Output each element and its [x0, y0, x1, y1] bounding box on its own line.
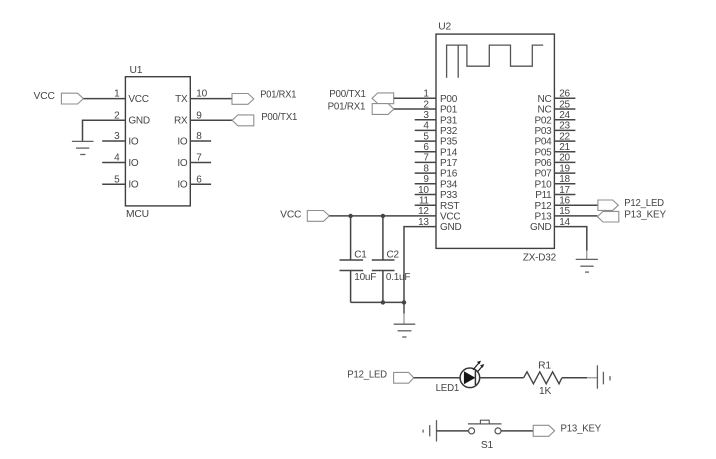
svg-text:5: 5 [423, 131, 429, 142]
svg-text:6: 6 [423, 142, 429, 153]
U2 pin 8 P16 [415, 163, 458, 179]
svg-text:P13: P13 [534, 212, 552, 223]
resistor R1 [524, 361, 562, 397]
svg-text:P11: P11 [535, 190, 552, 201]
svg-text:R1: R1 [538, 361, 551, 372]
svg-text:IO: IO [177, 180, 188, 191]
svg-text:VCC: VCC [280, 209, 302, 220]
IC U2 body [436, 22, 556, 264]
svg-text:TX: TX [175, 94, 188, 105]
svg-text:6: 6 [196, 174, 202, 185]
svg-text:P02: P02 [534, 115, 552, 126]
svg-text:P00/TX1: P00/TX1 [329, 89, 366, 100]
port VCC (decoupling rail) [280, 209, 329, 221]
U1 pin 5 IO [102, 174, 139, 190]
U2 pin 15 P13 [534, 206, 570, 222]
wire U2 pin16 to P12_LED port [554, 204, 598, 206]
svg-text:24: 24 [559, 110, 570, 121]
svg-text:10: 10 [418, 185, 429, 196]
svg-text:P35: P35 [440, 137, 458, 148]
svg-text:5: 5 [114, 174, 120, 185]
svg-text:P17: P17 [440, 158, 458, 169]
wire U1 pin2 GND [83, 120, 126, 141]
svg-text:3: 3 [423, 110, 429, 121]
svg-text:U1: U1 [130, 65, 143, 76]
port P13_KEY (key circuit) [533, 423, 601, 436]
wire ground rail [351, 301, 404, 303]
U2 pin 1 P00 [423, 89, 457, 105]
svg-text:P04: P04 [534, 137, 552, 148]
U2 pin 5 P35 [415, 131, 458, 147]
svg-text:P12_LED: P12_LED [624, 198, 664, 209]
svg-text:19: 19 [559, 163, 570, 174]
svg-text:GND: GND [440, 222, 462, 233]
U2 pin 6 P14 [415, 142, 458, 158]
U2 pin 25 NC [538, 99, 576, 115]
svg-text:IO: IO [128, 158, 139, 169]
antenna squiggle (U2) [447, 45, 544, 78]
U2 pin 24 P02 [534, 110, 575, 126]
svg-text:P00/TX1: P00/TX1 [261, 112, 297, 123]
switch S1 [468, 420, 502, 451]
wire P01 port to U2 pin2 [394, 108, 436, 110]
wire U2 pin13 GND down [404, 227, 436, 303]
U2 pin 18 P10 [534, 174, 575, 190]
svg-text:S1: S1 [481, 440, 494, 451]
svg-text:VCC: VCC [440, 212, 460, 223]
svg-text:8: 8 [423, 163, 429, 174]
svg-text:GND: GND [128, 116, 150, 127]
svg-text:8: 8 [196, 131, 202, 142]
svg-text:P06: P06 [534, 158, 552, 169]
svg-text:P34: P34 [440, 179, 458, 190]
svg-text:NC: NC [538, 94, 552, 105]
U1 pin 6 IO [177, 174, 211, 190]
IC U1 body [125, 65, 190, 220]
svg-text:IO: IO [177, 136, 188, 147]
U1 pin 2 GND [114, 110, 150, 126]
svg-text:18: 18 [559, 174, 570, 185]
svg-text:P00: P00 [440, 94, 458, 105]
U2 pin 2 P01 [423, 99, 457, 115]
svg-text:P12_LED: P12_LED [347, 370, 387, 381]
svg-text:P32: P32 [440, 126, 458, 137]
junction rail/C2 [381, 300, 385, 304]
U1 pin 4 IO [102, 153, 139, 169]
svg-text:IO: IO [128, 136, 139, 147]
port P01/RX1 (U1 pin10) [232, 90, 297, 105]
svg-text:P13_KEY: P13_KEY [624, 210, 666, 221]
svg-text:C1: C1 [354, 249, 367, 260]
svg-text:ZX-D32: ZX-D32 [523, 253, 556, 264]
svg-text:P01/RX1: P01/RX1 [260, 90, 296, 101]
svg-text:IO: IO [128, 180, 139, 191]
svg-text:26: 26 [559, 89, 570, 100]
U2 pin 12 VCC [418, 206, 460, 222]
svg-text:P07: P07 [534, 169, 552, 180]
port P00/TX1 (U2 pin1) [329, 89, 394, 104]
port P12_LED (LED circuit) [347, 370, 413, 384]
U2 pin 7 P17 [415, 153, 458, 169]
capacitor C2 [372, 216, 411, 303]
ground (below rail) [394, 302, 416, 337]
U2 pin 22 P04 [534, 131, 575, 147]
U1 pin 9 RX [174, 110, 232, 126]
svg-text:0.1uF: 0.1uF [386, 272, 410, 283]
U1 pin 7 IO [177, 153, 211, 169]
svg-text:7: 7 [423, 153, 429, 164]
LED LED1 [436, 361, 485, 394]
svg-text:9: 9 [423, 174, 429, 185]
U1 pin 10 TX [175, 89, 232, 105]
U2 pin 19 P07 [534, 163, 575, 179]
ground rotated (LED circuit) [597, 365, 610, 388]
svg-text:10uF: 10uF [354, 272, 376, 283]
svg-text:C2: C2 [387, 249, 400, 260]
U2 pin 21 P05 [534, 142, 575, 158]
wire S1 to P13_KEY port [501, 430, 533, 432]
svg-text:11: 11 [419, 196, 430, 207]
svg-text:GND: GND [530, 222, 552, 233]
ground (U2 pin14) [576, 251, 598, 273]
junction rail/GND [402, 300, 406, 304]
svg-text:17: 17 [559, 185, 570, 196]
svg-text:P03: P03 [534, 126, 552, 137]
wire port to LED1 [414, 377, 461, 379]
svg-text:P10: P10 [534, 179, 552, 190]
svg-text:1K: 1K [539, 386, 552, 397]
wire VCC port to U1 pin1 [83, 98, 125, 100]
svg-text:P12: P12 [534, 201, 552, 212]
svg-text:RX: RX [174, 116, 188, 127]
svg-text:P31: P31 [440, 115, 458, 126]
wire R1 to ground bar [562, 377, 587, 379]
svg-text:23: 23 [559, 121, 570, 132]
junction VCC/C2 [381, 214, 385, 218]
svg-text:P13_KEY: P13_KEY [561, 423, 602, 434]
svg-text:20: 20 [559, 153, 570, 164]
port VCC (U1) [34, 91, 84, 104]
svg-text:P14: P14 [440, 147, 458, 158]
port P12_LED (U2) [598, 198, 664, 210]
svg-text:21: 21 [559, 142, 570, 153]
ground (U1 pin2) [72, 141, 94, 154]
svg-text:4: 4 [114, 153, 120, 164]
U1 pin 8 IO [177, 131, 211, 147]
svg-text:25: 25 [559, 99, 570, 110]
svg-text:P01/RX1: P01/RX1 [328, 102, 366, 113]
junction VCC/C1 [348, 214, 352, 218]
wire U2 pin15 to P13_KEY port [554, 215, 597, 217]
U2 pin 23 P03 [534, 121, 575, 137]
svg-text:VCC: VCC [128, 94, 148, 105]
svg-text:NC: NC [538, 105, 552, 116]
wire LED1 to R1 [480, 377, 524, 379]
U2 pin 20 P06 [534, 153, 575, 169]
port P01/RX1 (U2 pin2) [328, 102, 394, 115]
U2 pin 4 P32 [415, 121, 458, 137]
capacitor C1 [340, 216, 377, 303]
svg-text:P05: P05 [534, 147, 552, 158]
U2 pin 10 P33 [415, 185, 458, 201]
svg-text:P33: P33 [440, 190, 458, 201]
svg-text:3: 3 [114, 131, 120, 142]
ground rotated (key circuit) [423, 420, 436, 441]
port P00/TX1 (U1 pin9) [232, 112, 298, 126]
svg-text:22: 22 [559, 131, 570, 142]
wire P00 port to U2 pin1 [394, 97, 436, 99]
svg-text:1: 1 [114, 89, 120, 100]
U2 pin 9 P34 [415, 174, 458, 190]
wire ground to S1 [437, 430, 469, 432]
svg-text:U2: U2 [438, 22, 451, 33]
svg-text:MCU: MCU [126, 209, 149, 220]
svg-text:9: 9 [196, 110, 202, 121]
svg-text:IO: IO [177, 158, 188, 169]
U2 pin 11 RST [415, 196, 460, 212]
U1 pin 3 IO [102, 131, 139, 147]
svg-text:LED1: LED1 [436, 383, 460, 394]
U2 pin 17 P11 [535, 185, 575, 201]
wire U2 pin14 GND [554, 227, 586, 251]
U2 pin 16 P12 [534, 196, 570, 212]
svg-text:10: 10 [196, 89, 207, 100]
svg-text:P16: P16 [440, 169, 458, 180]
U1 pin 1 VCC [114, 89, 149, 105]
svg-text:VCC: VCC [34, 91, 56, 102]
U2 pin 26 NC [538, 89, 576, 105]
U2 pin 14 GND [530, 217, 571, 233]
svg-text:RST: RST [440, 201, 459, 212]
svg-text:P01: P01 [440, 105, 458, 116]
svg-text:7: 7 [196, 153, 202, 164]
U2 pin 13 GND [418, 217, 461, 233]
wire VCC rail to U2 pin12 [329, 215, 436, 217]
port P13_KEY (U2) [597, 210, 666, 222]
U2 pin 3 P31 [415, 110, 458, 126]
svg-text:4: 4 [423, 121, 429, 132]
